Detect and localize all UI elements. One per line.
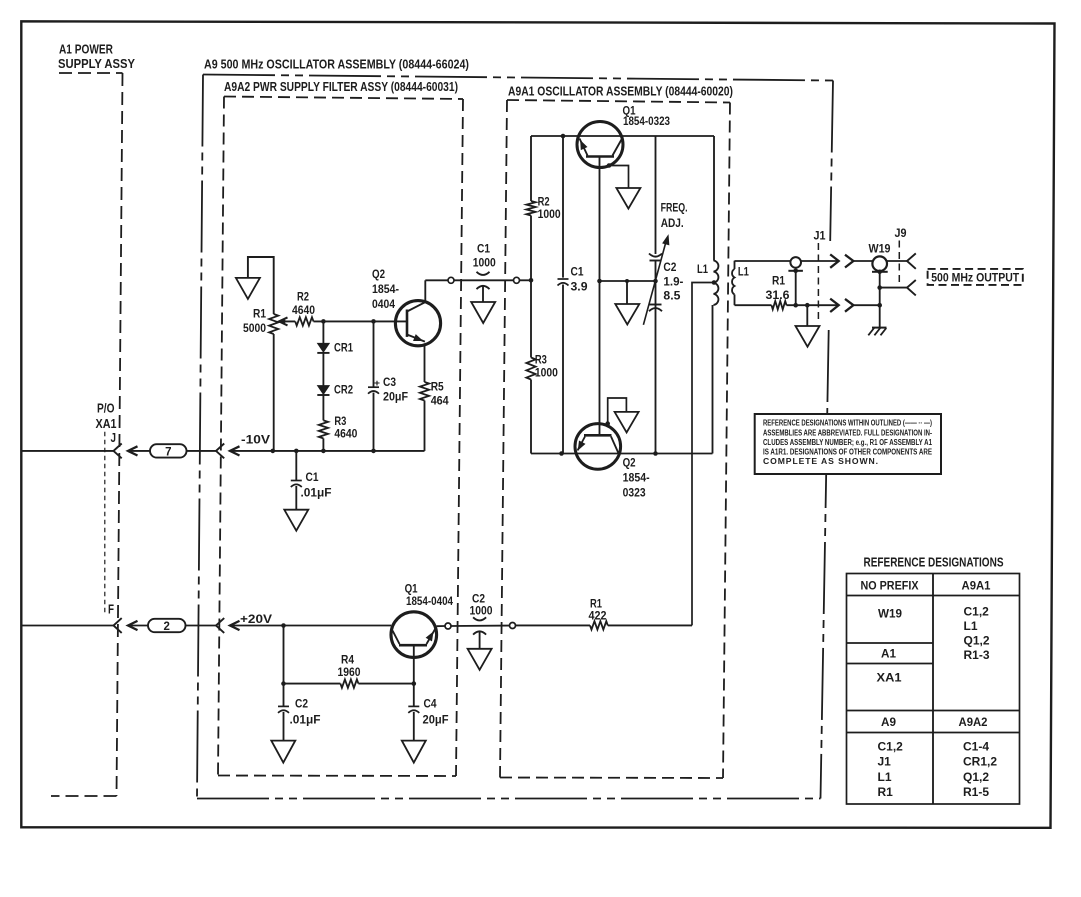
svg-text:R1: R1 bbox=[772, 274, 785, 288]
svg-text:F: F bbox=[108, 602, 114, 617]
svg-text:R5: R5 bbox=[431, 380, 444, 394]
svg-text:7: 7 bbox=[165, 446, 171, 458]
svg-text:1.9-: 1.9- bbox=[663, 275, 683, 289]
svg-text:31.6: 31.6 bbox=[766, 288, 790, 302]
svg-text:2: 2 bbox=[163, 621, 169, 633]
svg-text:C1: C1 bbox=[571, 265, 584, 279]
svg-text:R1: R1 bbox=[878, 785, 894, 799]
svg-text:FREQ.: FREQ. bbox=[661, 201, 688, 215]
svg-text:1000: 1000 bbox=[473, 256, 496, 270]
svg-text:J1: J1 bbox=[878, 755, 892, 769]
svg-text:L1: L1 bbox=[697, 262, 708, 276]
svg-text:A9: A9 bbox=[881, 715, 896, 729]
svg-text:C1,2: C1,2 bbox=[964, 605, 990, 619]
svg-text:A9A2 PWR SUPPLY FILTER ASSY (0: A9A2 PWR SUPPLY FILTER ASSY (08444-60031… bbox=[224, 80, 458, 94]
svg-text:C1: C1 bbox=[306, 470, 319, 484]
svg-text:0404: 0404 bbox=[372, 297, 395, 311]
svg-text:C1: C1 bbox=[477, 242, 490, 256]
svg-text:0323: 0323 bbox=[623, 486, 646, 500]
svg-text:Q2: Q2 bbox=[372, 267, 385, 281]
svg-text:1854-: 1854- bbox=[623, 471, 650, 485]
svg-text:C1-4: C1-4 bbox=[963, 740, 989, 754]
svg-text:+20V: +20V bbox=[240, 612, 272, 626]
svg-text:J: J bbox=[111, 430, 117, 445]
svg-text:.01μF: .01μF bbox=[290, 713, 321, 727]
svg-text:ASSEMBLIES ARE ABBREVIATED. F: ASSEMBLIES ARE ABBREVIATED. FULL DESIGNA… bbox=[763, 427, 932, 437]
svg-text:Q1,2: Q1,2 bbox=[963, 770, 989, 784]
svg-text:R1: R1 bbox=[253, 307, 266, 321]
svg-text:XA1: XA1 bbox=[877, 670, 902, 684]
svg-text:W19: W19 bbox=[878, 607, 902, 621]
svg-text:5000: 5000 bbox=[243, 321, 266, 335]
svg-text:1854-0323: 1854-0323 bbox=[623, 114, 670, 128]
svg-text:L1: L1 bbox=[878, 770, 892, 784]
svg-text:R1-3: R1-3 bbox=[964, 648, 990, 662]
svg-text:.01μF: .01μF bbox=[301, 486, 332, 500]
svg-text:1854-: 1854- bbox=[372, 282, 399, 296]
svg-text:Q1,2: Q1,2 bbox=[964, 634, 990, 648]
svg-text:A1 POWER: A1 POWER bbox=[59, 43, 113, 57]
svg-text:422: 422 bbox=[589, 609, 607, 623]
svg-text:A9A1 OSCILLATOR ASSEMBLY (0844: A9A1 OSCILLATOR ASSEMBLY (08444-60020) bbox=[508, 85, 733, 99]
svg-text:J9: J9 bbox=[895, 226, 907, 240]
svg-text:1000: 1000 bbox=[538, 207, 561, 221]
svg-text:ADJ.: ADJ. bbox=[661, 216, 684, 230]
svg-text:IS A1R1. DESIGNATIONS OF OTH: IS A1R1. DESIGNATIONS OF OTHER COMPONENT… bbox=[763, 447, 932, 457]
svg-text:A9A1: A9A1 bbox=[962, 579, 991, 593]
svg-text:J1: J1 bbox=[814, 229, 826, 243]
svg-text:REFERENCE DESIGNATIONS WITHIN: REFERENCE DESIGNATIONS WITHIN OUTLINED (… bbox=[763, 418, 932, 428]
svg-text:8.5: 8.5 bbox=[663, 289, 680, 303]
svg-text:A1: A1 bbox=[881, 647, 896, 661]
svg-text:CR2: CR2 bbox=[334, 383, 353, 397]
svg-text:C3: C3 bbox=[383, 375, 396, 389]
svg-text:SUPPLY ASSY: SUPPLY ASSY bbox=[58, 57, 136, 71]
svg-text:3.9: 3.9 bbox=[571, 280, 588, 294]
svg-text:CLUDES ASSEMBLY NUMBER; e.g.,: CLUDES ASSEMBLY NUMBER; e.g., R1 OF ASSE… bbox=[763, 437, 932, 447]
svg-text:REFERENCE DESIGNATIONS: REFERENCE DESIGNATIONS bbox=[864, 556, 1004, 570]
svg-text:Q2: Q2 bbox=[623, 456, 636, 470]
svg-text:XA1: XA1 bbox=[96, 416, 117, 431]
svg-text:-10V: -10V bbox=[241, 433, 270, 447]
svg-text:1000: 1000 bbox=[470, 604, 493, 618]
svg-text:P/O: P/O bbox=[97, 401, 115, 416]
svg-text:1960: 1960 bbox=[338, 665, 361, 679]
svg-text:CR1,2: CR1,2 bbox=[963, 755, 997, 769]
svg-text:C2: C2 bbox=[295, 697, 308, 711]
svg-text:+: + bbox=[374, 378, 380, 389]
svg-text:R3: R3 bbox=[535, 353, 547, 367]
svg-text:4640: 4640 bbox=[334, 427, 357, 441]
svg-text:C2: C2 bbox=[663, 260, 676, 274]
svg-text:L1: L1 bbox=[738, 265, 749, 279]
svg-text:R1-5: R1-5 bbox=[963, 785, 989, 799]
svg-text:L1: L1 bbox=[964, 619, 978, 633]
svg-text:R2: R2 bbox=[297, 290, 309, 304]
svg-text:C1,2: C1,2 bbox=[878, 740, 904, 754]
svg-text:500 MHz OUTPUT: 500 MHz OUTPUT bbox=[931, 270, 1019, 284]
svg-text:A9A2: A9A2 bbox=[959, 715, 988, 729]
svg-text:W19: W19 bbox=[869, 242, 891, 256]
svg-text:C4: C4 bbox=[424, 697, 437, 711]
svg-text:20μF: 20μF bbox=[383, 390, 408, 404]
svg-text:A9 500 MHz OSCILLATOR ASSEMBLY: A9 500 MHz OSCILLATOR ASSEMBLY (08444-66… bbox=[204, 58, 469, 72]
svg-text:COMPLETE AS SHOWN.: COMPLETE AS SHOWN. bbox=[763, 456, 878, 466]
svg-text:20μF: 20μF bbox=[423, 713, 449, 727]
svg-text:1000: 1000 bbox=[535, 366, 558, 380]
svg-text:464: 464 bbox=[431, 394, 449, 408]
svg-text:1854-0404: 1854-0404 bbox=[406, 594, 453, 608]
svg-text:CR1: CR1 bbox=[334, 341, 353, 355]
svg-text:NO PREFIX: NO PREFIX bbox=[861, 579, 919, 593]
svg-text:4640: 4640 bbox=[292, 303, 315, 317]
